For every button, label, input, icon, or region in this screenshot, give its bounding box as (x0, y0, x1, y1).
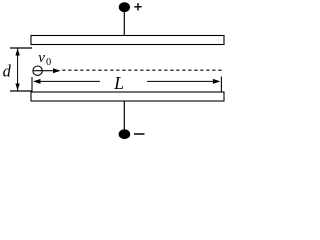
+ label (134, 3, 141, 10)
+ terminal dot (119, 2, 130, 12)
trajectory dashed line (62, 69, 221, 71)
dimension d top arrowhead (15, 49, 19, 56)
svg-text:0: 0 (46, 57, 51, 68)
dimension L left bar (31, 77, 33, 92)
dimension L left arrowhead (33, 79, 41, 84)
dimension d top tick (10, 47, 32, 49)
svg-text:d: d (3, 62, 12, 81)
wire to - terminal (123, 101, 125, 133)
dimension L right arrowhead (213, 79, 221, 84)
svg-text:v: v (38, 50, 45, 66)
- label (134, 133, 145, 135)
particle bar (33, 70, 42, 72)
charged particle (33, 66, 42, 75)
dimension d bottom arrowhead (15, 84, 19, 91)
wire to + terminal (123, 8, 125, 36)
dimension L left segment (40, 80, 100, 82)
dimension d arrow line (17, 49, 19, 91)
bottom plate (31, 92, 224, 101)
dimension L right bar (220, 77, 222, 93)
svg-text:L: L (113, 73, 124, 93)
- terminal dot (119, 129, 131, 139)
velocity arrow v0 (42, 70, 57, 72)
dimension d bottom tick (10, 90, 32, 92)
top plate (31, 36, 224, 45)
dimension L right segment (147, 80, 214, 82)
